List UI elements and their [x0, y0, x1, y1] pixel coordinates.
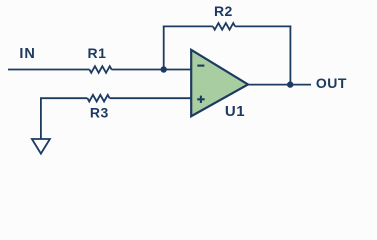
op-amp inverting input pin (minus)	[197, 65, 204, 67]
op-amp U1	[191, 50, 248, 116]
svg-text:U1: U1	[225, 103, 245, 120]
resistor R1	[89, 66, 111, 73]
svg-text:R2: R2	[214, 3, 233, 19]
node OUT (junction dot)	[287, 81, 293, 87]
wire output	[247, 84, 312, 86]
ground	[32, 139, 50, 154]
op-amp non-inverting input pin (plus)	[197, 96, 204, 103]
wire feedback right vertical down to output	[289, 26, 291, 85]
svg-text:IN: IN	[19, 46, 36, 62]
wire R3 branch to non-inverting input	[40, 98, 191, 139]
resistor R3	[87, 95, 109, 102]
svg-text:R3: R3	[90, 104, 109, 120]
resistor R2	[213, 23, 235, 30]
svg-text:R1: R1	[88, 45, 107, 61]
node A (junction at inverting input)	[161, 66, 167, 72]
wire node A up to feedback branch	[163, 26, 165, 70]
wire IN to inverting input	[8, 69, 191, 71]
svg-text:OUT: OUT	[316, 75, 347, 91]
wire feedback top	[163, 25, 291, 27]
